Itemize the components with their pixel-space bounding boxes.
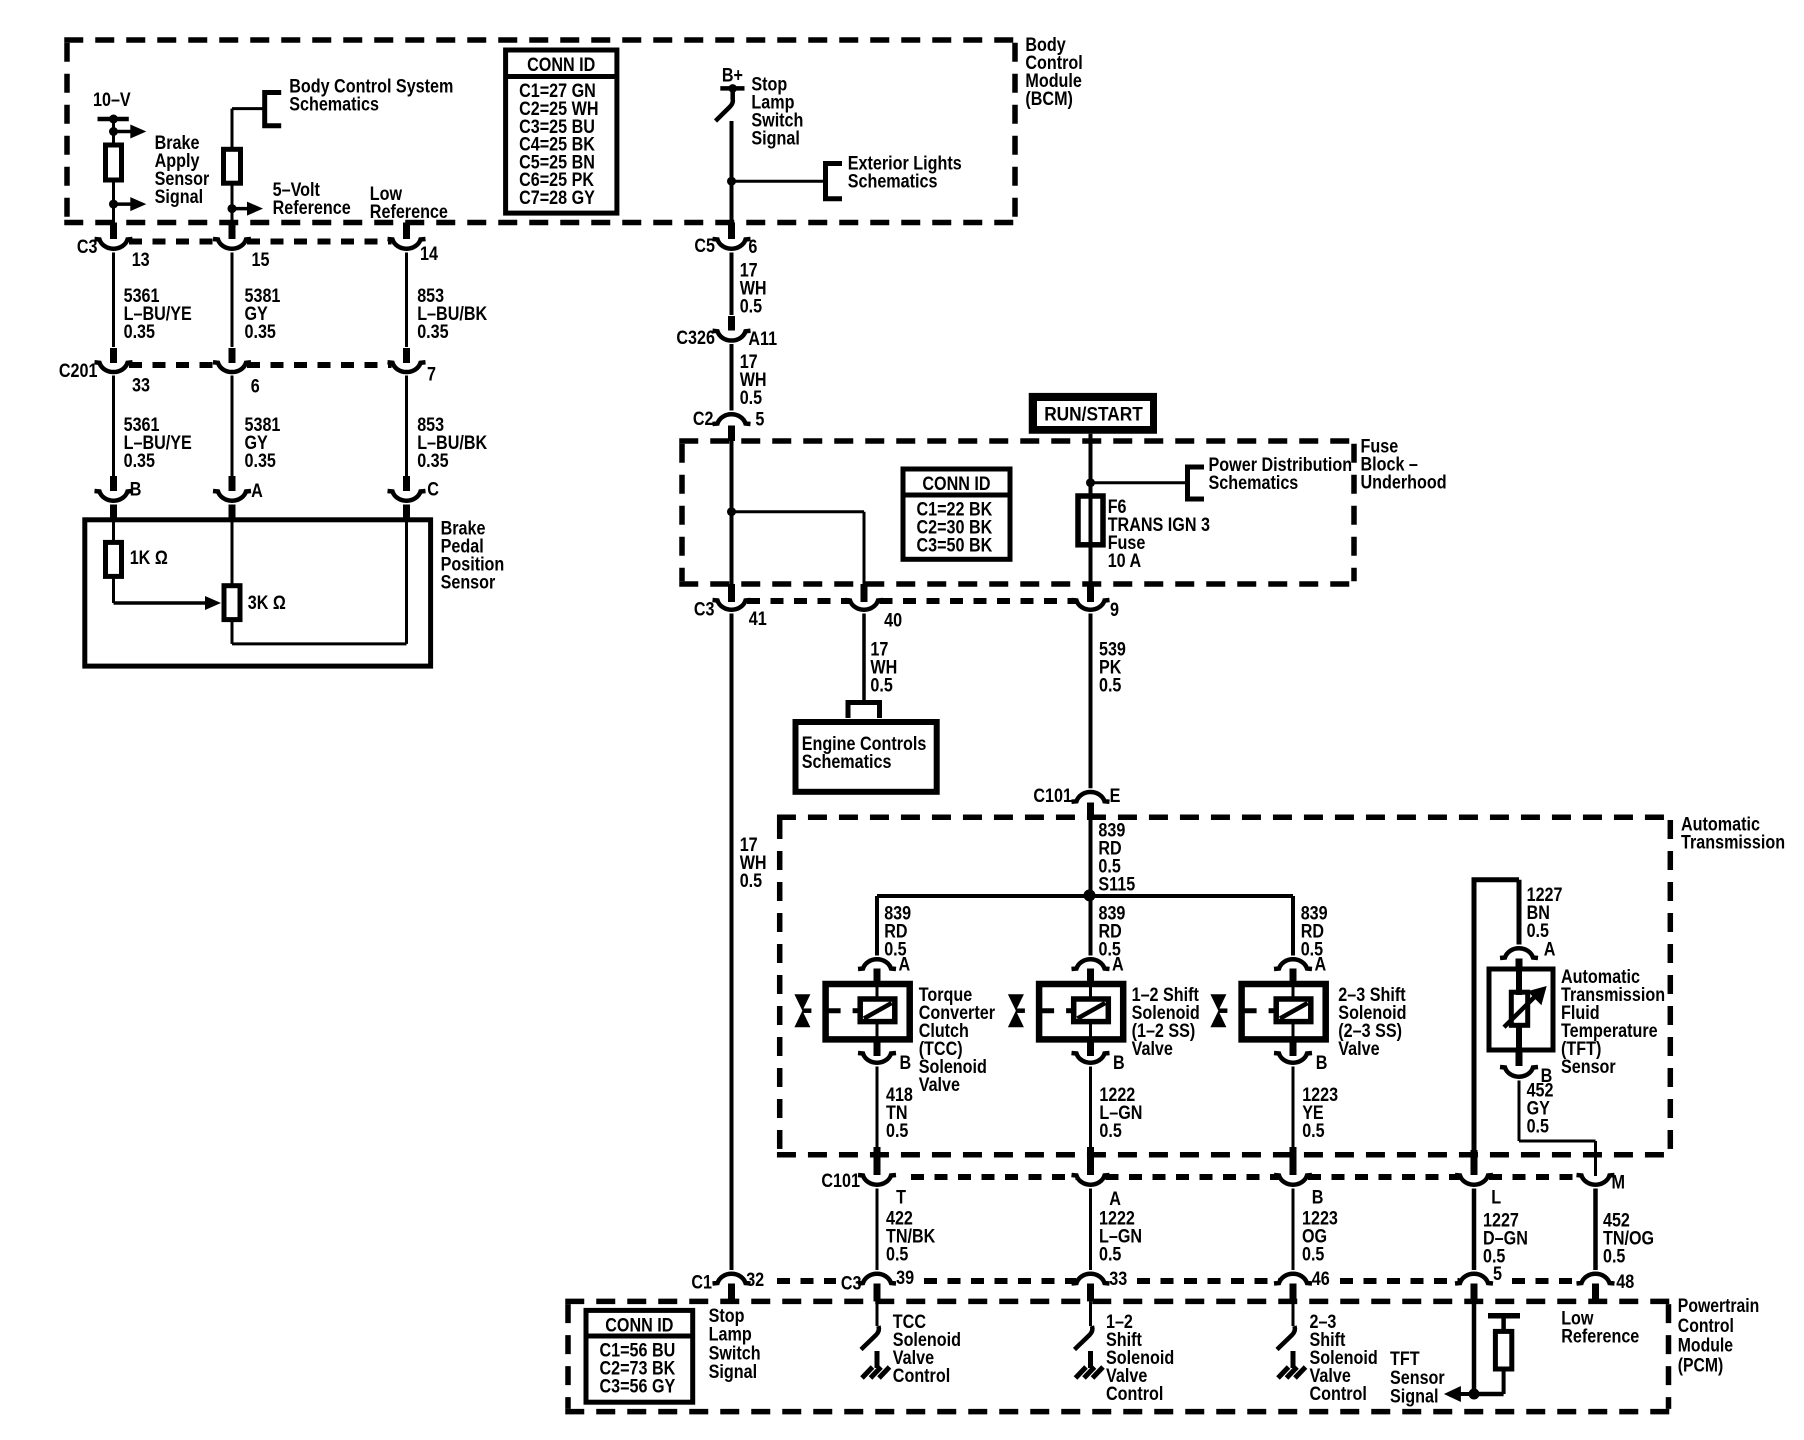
- svg-text:46: 46: [1312, 1269, 1330, 1290]
- svg-text:1K Ω: 1K Ω: [130, 548, 168, 569]
- svg-text:C1: C1: [691, 1273, 712, 1294]
- svg-text:CONN ID: CONN ID: [605, 1315, 673, 1336]
- svg-text:33: 33: [132, 376, 150, 397]
- svg-text:C3: C3: [841, 1274, 862, 1295]
- svg-text:E: E: [1110, 786, 1121, 807]
- svg-text:C101: C101: [1033, 786, 1072, 807]
- svg-text:6: 6: [748, 237, 757, 258]
- svg-text:5: 5: [755, 409, 764, 430]
- svg-text:C5: C5: [694, 236, 715, 257]
- svg-text:7: 7: [427, 365, 436, 386]
- svg-text:C: C: [427, 480, 439, 501]
- svg-text:RUN/START: RUN/START: [1044, 405, 1143, 426]
- svg-text:A: A: [1544, 940, 1556, 961]
- svg-text:41: 41: [749, 609, 767, 630]
- svg-text:A: A: [1109, 1189, 1121, 1210]
- svg-text:C3: C3: [77, 237, 98, 258]
- svg-text:C101: C101: [821, 1171, 860, 1192]
- svg-text:A: A: [1315, 954, 1327, 975]
- svg-text:15: 15: [252, 250, 270, 271]
- svg-text:C326: C326: [676, 328, 715, 349]
- svg-text:B: B: [1113, 1053, 1125, 1074]
- svg-text:T: T: [896, 1188, 906, 1209]
- svg-text:C1=56 BUC2=73 BKC3=56 GY: C1=56 BUC2=73 BKC3=56 GY: [600, 1341, 676, 1398]
- svg-text:A: A: [1112, 954, 1124, 975]
- svg-text:M: M: [1612, 1172, 1626, 1193]
- svg-text:A: A: [251, 481, 263, 502]
- svg-text:B: B: [130, 480, 142, 501]
- svg-text:B: B: [1312, 1188, 1324, 1209]
- svg-text:39: 39: [896, 1268, 914, 1289]
- svg-text:C1=22 BKC2=30 BKC3=50 BK: C1=22 BKC2=30 BKC3=50 BK: [917, 500, 993, 557]
- svg-text:3K Ω: 3K Ω: [248, 593, 286, 614]
- svg-text:B: B: [900, 1053, 912, 1074]
- svg-text:B+: B+: [722, 65, 743, 86]
- svg-text:B: B: [1316, 1053, 1328, 1074]
- svg-text:C201: C201: [59, 361, 98, 382]
- svg-text:33: 33: [1109, 1269, 1127, 1290]
- svg-text:32: 32: [746, 1270, 764, 1291]
- svg-text:10–V: 10–V: [93, 90, 131, 111]
- svg-text:14: 14: [420, 244, 438, 265]
- svg-text:C1=27 GNC2=25 WHC3=25 BUC4=25: C1=27 GNC2=25 WHC3=25 BUC4=25 BKC5=25 BN…: [519, 81, 598, 209]
- svg-text:40: 40: [884, 610, 902, 631]
- svg-text:A: A: [899, 954, 911, 975]
- svg-text:A11: A11: [748, 329, 777, 350]
- svg-text:L: L: [1491, 1187, 1501, 1208]
- svg-text:C3: C3: [694, 600, 715, 621]
- svg-text:48: 48: [1616, 1272, 1634, 1293]
- svg-text:C2: C2: [693, 409, 714, 430]
- svg-text:5: 5: [1493, 1264, 1502, 1285]
- svg-text:13: 13: [132, 250, 150, 271]
- svg-text:9: 9: [1110, 600, 1119, 621]
- svg-text:CONN ID: CONN ID: [527, 55, 595, 76]
- svg-text:CONN ID: CONN ID: [922, 474, 990, 495]
- svg-text:6: 6: [251, 377, 260, 398]
